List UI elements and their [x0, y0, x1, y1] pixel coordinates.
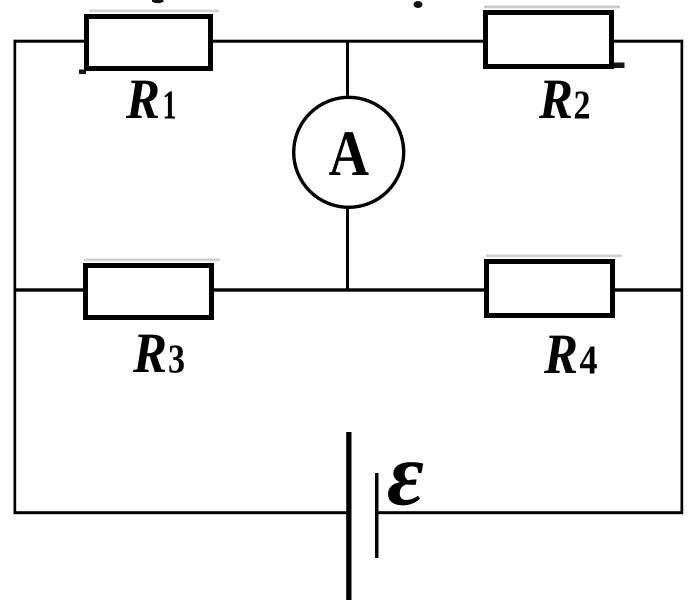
cropped glyph dot top-center — [414, 1, 423, 8]
resistor R4 — [487, 262, 613, 316]
wire top-left segment — [14, 40, 85, 43]
resistor R3 — [86, 266, 212, 318]
wire top-right segment — [614, 40, 683, 43]
artifact nub right of R2 bottom border — [612, 63, 625, 69]
wire middle-center segment — [214, 288, 485, 291]
wire middle-left segment — [14, 288, 84, 291]
svg-text:R: R — [538, 68, 573, 131]
svg-text:ε: ε — [387, 425, 424, 524]
battery short plate (negative) — [375, 473, 379, 558]
shadow artifact above R3 — [84, 259, 220, 262]
svg-text:2: 2 — [574, 82, 591, 128]
svg-text:R: R — [543, 323, 578, 386]
shadow artifact above R1 — [89, 10, 219, 13]
wire ammeter top lead — [346, 41, 349, 98]
wire bottom-right segment — [377, 511, 683, 514]
wire top-middle segment — [213, 40, 483, 43]
svg-text:A: A — [329, 118, 369, 190]
svg-text:1: 1 — [163, 82, 177, 128]
resistor R1 — [87, 17, 211, 69]
resistor R2 — [486, 13, 612, 67]
shadow artifact above R4 — [486, 255, 622, 258]
svg-text:4: 4 — [580, 337, 598, 383]
wire left vertical — [14, 40, 17, 514]
cropped glyph fragment top-left — [152, 0, 164, 3]
wire middle-right segment — [615, 288, 683, 291]
shadow artifact above R2 — [484, 6, 620, 9]
svg-text:R: R — [125, 68, 160, 131]
ammeter A (circle) — [294, 97, 404, 207]
battery long plate (positive) — [346, 432, 351, 600]
wire right vertical — [681, 40, 684, 514]
artifact tick at R1 bottom-left corner — [79, 70, 86, 75]
wire bottom-left segment — [14, 511, 348, 514]
svg-text:3: 3 — [168, 336, 185, 382]
wire ammeter bottom lead — [346, 208, 349, 291]
svg-text:R: R — [132, 322, 167, 385]
